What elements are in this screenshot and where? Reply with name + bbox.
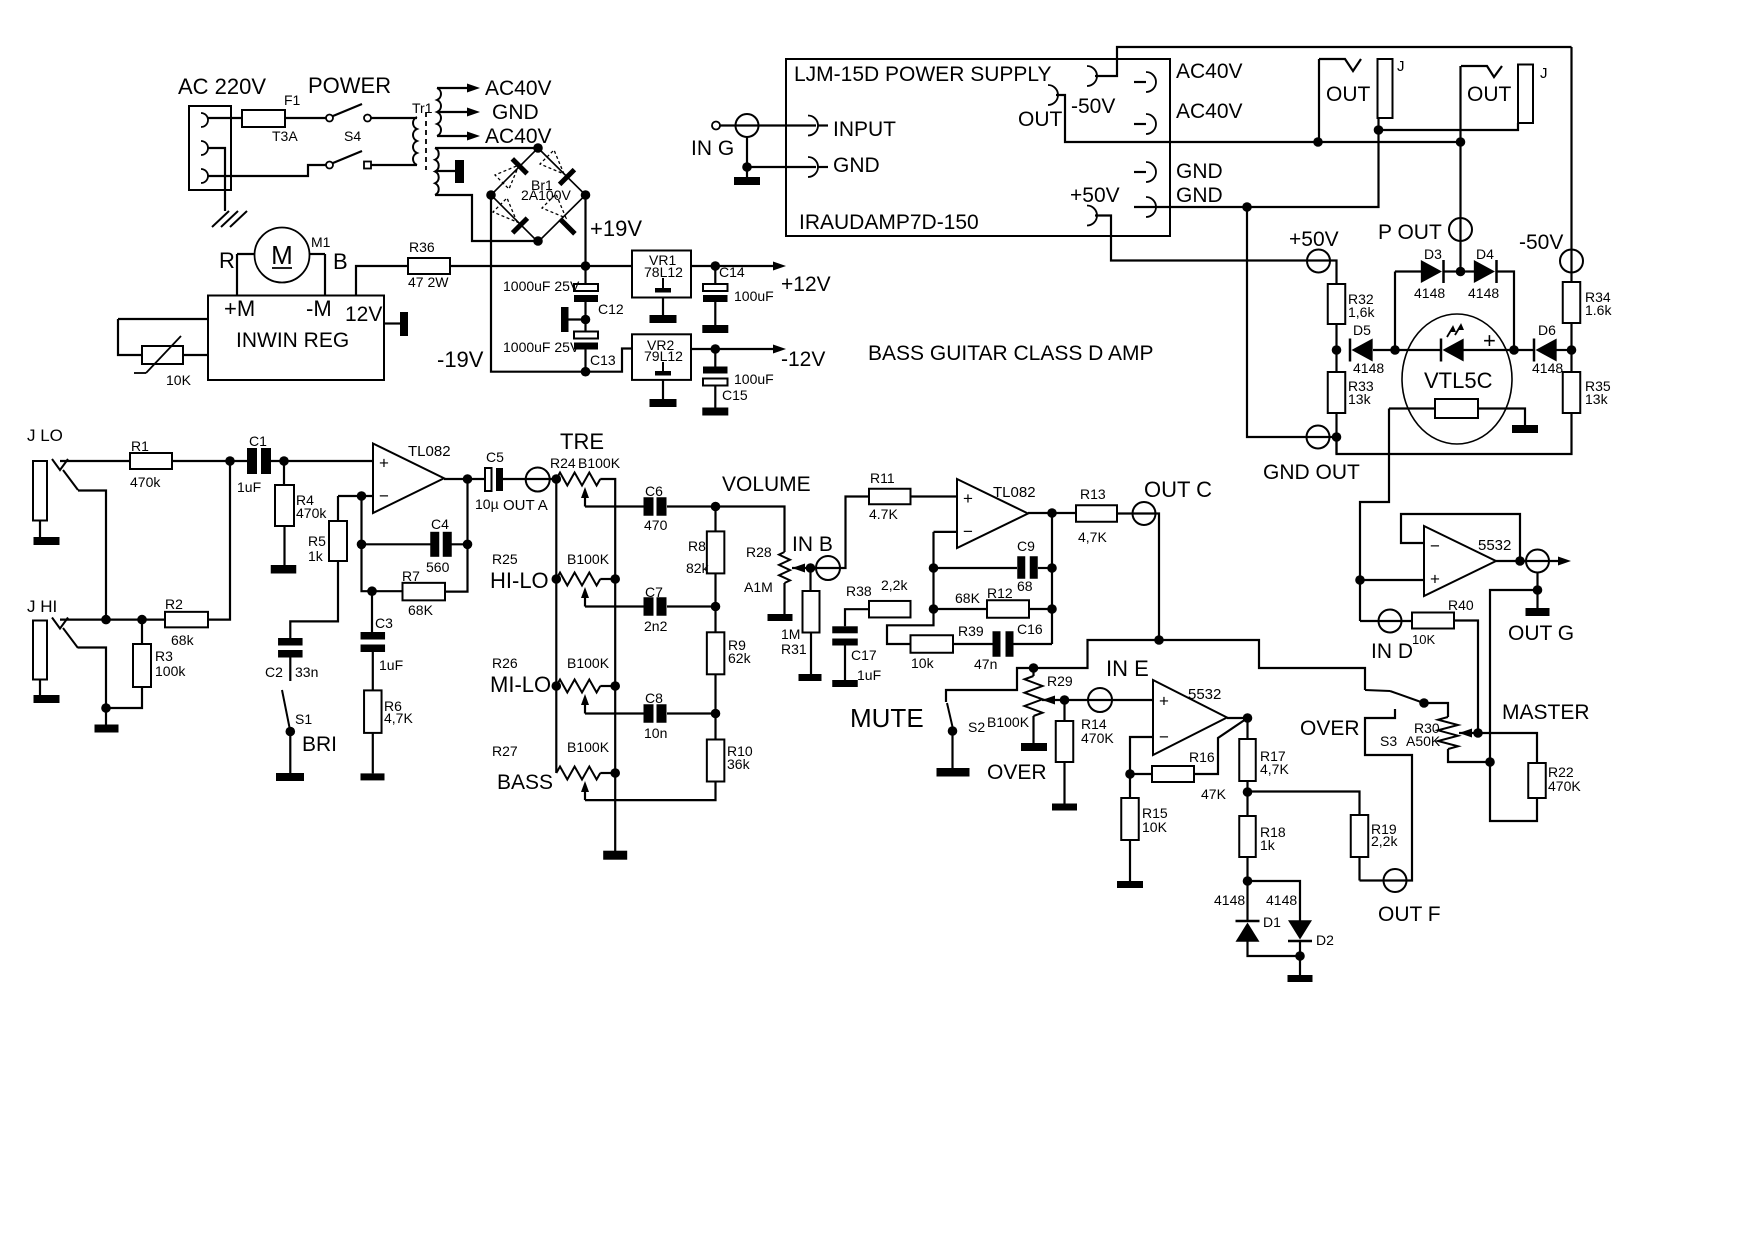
svg-text:B: B: [333, 249, 348, 274]
svg-text:OUT C: OUT C: [1144, 477, 1212, 502]
svg-text:C3: C3: [375, 615, 393, 631]
svg-text:TL082: TL082: [993, 484, 1036, 501]
svg-text:C16: C16: [1017, 621, 1043, 637]
svg-text:POWER: POWER: [308, 73, 391, 98]
svg-text:Tr1: Tr1: [412, 100, 433, 116]
svg-text:D2: D2: [1316, 932, 1334, 948]
svg-text:R36: R36: [409, 239, 435, 255]
svg-text:+: +: [1430, 570, 1440, 589]
svg-text:R27: R27: [492, 743, 518, 759]
svg-text:MI-LO: MI-LO: [490, 672, 551, 697]
svg-text:47K: 47K: [1201, 786, 1227, 802]
svg-text:1uF: 1uF: [237, 479, 261, 495]
svg-text:GND: GND: [833, 154, 880, 177]
svg-text:OUT A: OUT A: [503, 497, 548, 514]
svg-text:D1: D1: [1263, 914, 1281, 930]
svg-text:−: −: [1430, 536, 1440, 555]
svg-text:+19V: +19V: [590, 216, 642, 241]
svg-text:F1: F1: [284, 92, 301, 108]
svg-text:R38: R38: [846, 583, 872, 599]
svg-text:R7: R7: [402, 568, 420, 584]
svg-text:1.6k: 1.6k: [1585, 302, 1612, 318]
svg-text:1000uF 25V: 1000uF 25V: [503, 339, 580, 355]
svg-text:TRE: TRE: [560, 429, 604, 454]
svg-text:−: −: [963, 522, 973, 541]
svg-text:J HI: J HI: [27, 597, 57, 616]
svg-text:D4: D4: [1476, 246, 1494, 262]
svg-text:OUT: OUT: [1467, 83, 1512, 106]
svg-text:R11: R11: [870, 470, 895, 486]
svg-text:-19V: -19V: [437, 347, 484, 372]
svg-text:4,7K: 4,7K: [1260, 761, 1289, 777]
svg-text:VOLUME: VOLUME: [722, 473, 811, 496]
svg-text:10K: 10K: [166, 372, 192, 388]
svg-text:10n: 10n: [644, 725, 667, 741]
svg-text:S3: S3: [1380, 733, 1397, 749]
svg-text:R39: R39: [958, 623, 984, 639]
svg-text:OUT F: OUT F: [1378, 903, 1441, 926]
svg-text:+12V: +12V: [781, 273, 831, 296]
svg-text:−: −: [379, 487, 389, 506]
svg-text:OUT: OUT: [1018, 108, 1063, 131]
svg-text:OUT: OUT: [1326, 83, 1371, 106]
svg-text:R26: R26: [492, 655, 518, 671]
svg-text:4148: 4148: [1414, 285, 1445, 301]
svg-text:10k: 10k: [911, 655, 935, 671]
svg-text:R16: R16: [1189, 749, 1215, 765]
svg-text:C1: C1: [249, 433, 267, 449]
svg-text:2,2k: 2,2k: [1371, 833, 1398, 849]
svg-text:IN D: IN D: [1371, 640, 1413, 663]
svg-text:R2: R2: [165, 596, 183, 612]
svg-text:S1: S1: [295, 711, 312, 727]
svg-text:T3A: T3A: [272, 128, 298, 144]
svg-text:AC40V: AC40V: [1176, 60, 1243, 83]
svg-text:IN B: IN B: [792, 533, 833, 556]
svg-text:C15: C15: [722, 387, 748, 403]
svg-text:78L12: 78L12: [644, 264, 683, 280]
svg-text:-50V: -50V: [1519, 231, 1563, 254]
svg-text:R5: R5: [308, 533, 326, 549]
svg-text:A1M: A1M: [744, 579, 773, 595]
svg-text:4148: 4148: [1353, 360, 1384, 376]
svg-text:4,7K: 4,7K: [1078, 529, 1107, 545]
svg-text:-M: -M: [306, 296, 332, 321]
svg-text:INPUT: INPUT: [833, 118, 896, 141]
svg-text:62k: 62k: [728, 650, 752, 666]
svg-text:36k: 36k: [727, 756, 751, 772]
svg-text:1uF: 1uF: [857, 667, 881, 683]
svg-text:2,2k: 2,2k: [881, 577, 908, 593]
svg-text:100uF: 100uF: [734, 371, 774, 387]
svg-text:100uF: 100uF: [734, 288, 774, 304]
svg-text:INWIN REG: INWIN REG: [236, 329, 349, 352]
svg-text:13k: 13k: [1585, 391, 1609, 407]
svg-text:C9: C9: [1017, 538, 1035, 554]
svg-text:LJM-15D POWER SUPPLY: LJM-15D POWER SUPPLY: [794, 63, 1052, 86]
svg-text:1000uF 25V: 1000uF 25V: [503, 278, 580, 294]
svg-text:470: 470: [644, 517, 668, 533]
svg-text:+: +: [379, 454, 389, 473]
svg-text:1uF: 1uF: [379, 657, 403, 673]
svg-text:D6: D6: [1538, 322, 1556, 338]
svg-text:1M: 1M: [781, 626, 800, 642]
svg-text:68k: 68k: [171, 632, 195, 648]
svg-text:MUTE: MUTE: [850, 703, 924, 733]
svg-text:100k: 100k: [155, 663, 186, 679]
svg-text:R29: R29: [1047, 673, 1073, 689]
svg-text:4148: 4148: [1532, 360, 1563, 376]
svg-text:R28: R28: [746, 544, 772, 560]
svg-text:B100K: B100K: [567, 551, 610, 567]
svg-text:A50K: A50K: [1406, 733, 1441, 749]
svg-text:R13: R13: [1080, 486, 1106, 502]
svg-text:J: J: [1540, 65, 1548, 82]
svg-text:68K: 68K: [408, 602, 434, 618]
svg-text:R1: R1: [131, 438, 149, 454]
svg-text:R24: R24: [550, 455, 576, 471]
svg-text:470K: 470K: [1081, 730, 1114, 746]
svg-text:82k: 82k: [686, 560, 710, 576]
svg-text:GND OUT: GND OUT: [1263, 461, 1360, 484]
svg-text:AC40V: AC40V: [485, 77, 552, 100]
svg-text:4148: 4148: [1266, 892, 1297, 908]
svg-text:R: R: [219, 248, 235, 273]
svg-text:B100K: B100K: [578, 455, 621, 471]
svg-text:12V: 12V: [345, 303, 382, 326]
svg-text:D5: D5: [1353, 322, 1371, 338]
svg-text:M: M: [271, 240, 293, 270]
svg-text:+50V: +50V: [1289, 228, 1339, 251]
svg-text:OVER: OVER: [1300, 717, 1360, 740]
svg-text:+M: +M: [224, 296, 255, 321]
svg-text:C8: C8: [645, 690, 663, 706]
svg-text:BASS: BASS: [497, 771, 553, 794]
svg-text:IRAUDAMP7D-150: IRAUDAMP7D-150: [799, 211, 979, 234]
svg-text:R8: R8: [688, 538, 706, 554]
svg-text:C4: C4: [431, 516, 449, 532]
svg-text:-50V: -50V: [1071, 95, 1115, 118]
svg-text:4.7K: 4.7K: [869, 506, 898, 522]
svg-text:AC40V: AC40V: [1176, 100, 1243, 123]
svg-text:5532: 5532: [1478, 537, 1511, 554]
svg-text:C5: C5: [486, 449, 504, 465]
svg-text:C6: C6: [645, 483, 663, 499]
svg-text:C17: C17: [851, 647, 877, 663]
svg-text:R25: R25: [492, 551, 518, 567]
svg-text:10K: 10K: [1412, 632, 1435, 647]
svg-text:560: 560: [426, 559, 450, 575]
svg-text:OVER: OVER: [987, 761, 1047, 784]
svg-text:AC 220V: AC 220V: [178, 74, 266, 99]
svg-text:4148: 4148: [1214, 892, 1245, 908]
svg-text:2A100V: 2A100V: [521, 187, 571, 203]
svg-text:S4: S4: [344, 128, 361, 144]
svg-text:1k: 1k: [1260, 837, 1276, 853]
svg-text:C13: C13: [590, 352, 616, 368]
svg-text:-12V: -12V: [781, 348, 825, 371]
svg-text:AC40V: AC40V: [485, 125, 552, 148]
svg-text:OUT G: OUT G: [1508, 622, 1574, 645]
svg-text:+: +: [1159, 692, 1169, 711]
svg-text:−: −: [1159, 727, 1169, 746]
svg-text:1,6k: 1,6k: [1348, 304, 1375, 320]
svg-text:S2: S2: [968, 719, 985, 735]
svg-text:GND: GND: [1176, 184, 1223, 207]
svg-text:R3: R3: [155, 648, 173, 664]
svg-text:68K: 68K: [955, 590, 981, 606]
svg-text:R40: R40: [1448, 597, 1474, 613]
svg-text:P OUT: P OUT: [1378, 221, 1442, 244]
svg-text:R31: R31: [781, 641, 807, 657]
svg-text:470k: 470k: [296, 505, 327, 521]
svg-text:4,7K: 4,7K: [384, 710, 413, 726]
svg-text:+: +: [1483, 328, 1496, 353]
svg-text:R12: R12: [987, 585, 1013, 601]
svg-text:C7: C7: [645, 584, 663, 600]
svg-text:VTL5C: VTL5C: [1424, 368, 1493, 393]
svg-text:1k: 1k: [308, 548, 324, 564]
svg-text:13k: 13k: [1348, 391, 1372, 407]
svg-text:470k: 470k: [130, 474, 161, 490]
svg-text:5532: 5532: [1188, 686, 1221, 703]
svg-text:B100K: B100K: [567, 739, 610, 755]
svg-text:2n2: 2n2: [644, 618, 668, 634]
svg-text:M1: M1: [311, 234, 331, 250]
svg-text:GND: GND: [492, 101, 539, 124]
svg-text:470K: 470K: [1548, 778, 1581, 794]
svg-text:47n: 47n: [974, 656, 997, 672]
svg-text:B100K: B100K: [567, 655, 610, 671]
svg-text:BRI: BRI: [302, 733, 337, 756]
svg-text:10K: 10K: [1142, 819, 1168, 835]
svg-text:B100K: B100K: [987, 714, 1030, 730]
svg-text:+: +: [963, 489, 973, 508]
svg-text:GND: GND: [1176, 160, 1223, 183]
svg-text:MASTER: MASTER: [1502, 701, 1590, 724]
svg-text:BASS GUITAR CLASS D AMP: BASS GUITAR CLASS D AMP: [868, 342, 1154, 365]
svg-text:C2: C2: [265, 664, 283, 680]
svg-text:IN E: IN E: [1106, 656, 1149, 681]
svg-text:79L12: 79L12: [644, 348, 683, 364]
svg-text:HI-LO: HI-LO: [490, 568, 549, 593]
svg-text:IN G: IN G: [691, 137, 734, 160]
svg-text:C14: C14: [719, 264, 745, 280]
svg-text:D3: D3: [1424, 246, 1442, 262]
svg-text:4148: 4148: [1468, 285, 1499, 301]
svg-text:J: J: [1397, 58, 1405, 75]
svg-text:+50V: +50V: [1070, 184, 1120, 207]
svg-text:47 2W: 47 2W: [408, 274, 449, 290]
svg-text:J LO: J LO: [27, 426, 63, 445]
svg-text:68: 68: [1017, 578, 1033, 594]
svg-text:10µ: 10µ: [475, 496, 499, 512]
svg-text:C12: C12: [598, 301, 624, 317]
svg-text:TL082: TL082: [408, 443, 451, 460]
svg-text:33n: 33n: [295, 664, 318, 680]
